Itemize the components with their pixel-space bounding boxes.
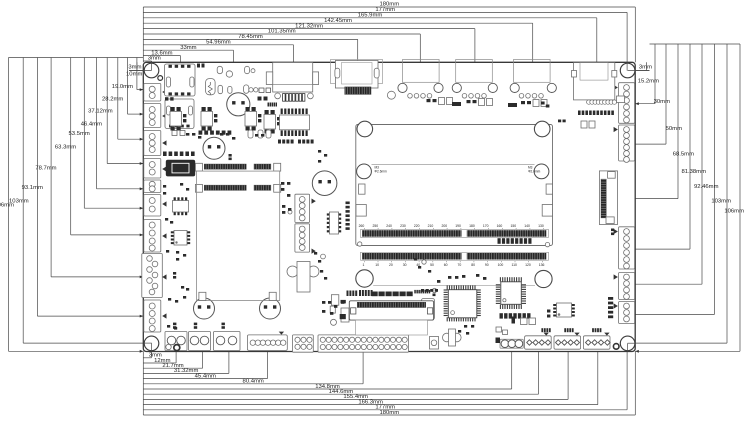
svg-text:1: 1 (363, 263, 365, 267)
svg-text:90: 90 (485, 263, 489, 267)
svg-text:80: 80 (471, 263, 475, 267)
svg-text:92.46mm: 92.46mm (694, 184, 719, 190)
svg-text:177mm: 177mm (375, 7, 395, 13)
svg-text:63.3mm: 63.3mm (55, 144, 76, 150)
svg-text:120: 120 (525, 263, 531, 267)
svg-text:54.96mm: 54.96mm (206, 40, 231, 46)
svg-text:68.5mm: 68.5mm (673, 151, 694, 157)
svg-text:19.0mm: 19.0mm (112, 84, 133, 90)
svg-text:13.6mm: 13.6mm (151, 50, 172, 56)
svg-text:50mm: 50mm (666, 126, 682, 132)
svg-text:106mm: 106mm (724, 209, 744, 215)
svg-text:180: 180 (469, 224, 475, 228)
svg-text:Φ2.6mm: Φ2.6mm (375, 170, 388, 174)
svg-text:50: 50 (430, 263, 434, 267)
svg-text:165.9mm: 165.9mm (358, 13, 383, 19)
svg-text:210: 210 (428, 224, 434, 228)
svg-text:170: 170 (483, 224, 489, 228)
svg-text:160: 160 (497, 224, 503, 228)
svg-text:260: 260 (359, 224, 365, 228)
svg-text:240: 240 (386, 224, 392, 228)
svg-text:30mm: 30mm (654, 99, 670, 105)
svg-text:3mm: 3mm (128, 65, 141, 71)
svg-text:142.45mm: 142.45mm (324, 18, 352, 24)
svg-text:190: 190 (455, 224, 461, 228)
svg-text:53.5mm: 53.5mm (69, 131, 90, 137)
svg-text:37.12mm: 37.12mm (88, 109, 113, 115)
svg-text:101.35mm: 101.35mm (268, 29, 296, 35)
svg-text:230: 230 (400, 224, 406, 228)
svg-text:103mm: 103mm (711, 198, 731, 204)
svg-text:46.4mm: 46.4mm (81, 121, 102, 127)
svg-text:93.1mm: 93.1mm (22, 185, 43, 191)
svg-text:10: 10 (375, 263, 379, 267)
svg-text:60: 60 (444, 263, 448, 267)
svg-text:3mm: 3mm (639, 65, 652, 71)
svg-text:250: 250 (372, 224, 378, 228)
svg-text:100: 100 (498, 263, 504, 267)
svg-text:45.4mm: 45.4mm (195, 373, 216, 379)
svg-text:140: 140 (524, 224, 530, 228)
svg-text:33mm: 33mm (180, 45, 196, 51)
svg-text:150: 150 (510, 224, 516, 228)
svg-text:200: 200 (441, 224, 447, 228)
svg-text:136: 136 (539, 263, 545, 267)
svg-text:30: 30 (403, 263, 407, 267)
svg-text:20: 20 (389, 263, 393, 267)
svg-text:15.2mm: 15.2mm (638, 79, 659, 85)
svg-text:Φ2.6mm: Φ2.6mm (528, 170, 541, 174)
svg-text:180mm: 180mm (379, 410, 399, 416)
svg-text:81.38mm: 81.38mm (681, 169, 706, 175)
svg-text:78.7mm: 78.7mm (35, 165, 56, 171)
svg-text:180mm: 180mm (379, 2, 399, 8)
svg-text:28.2mm: 28.2mm (102, 96, 123, 102)
svg-text:10mm: 10mm (126, 72, 142, 78)
svg-text:70: 70 (458, 263, 462, 267)
svg-text:110: 110 (511, 263, 517, 267)
svg-text:130: 130 (538, 224, 544, 228)
svg-text:3mm: 3mm (148, 56, 161, 62)
svg-text:220: 220 (414, 224, 420, 228)
svg-text:78.45mm: 78.45mm (238, 34, 263, 40)
svg-text:80.4mm: 80.4mm (243, 379, 264, 385)
svg-text:121.32mm: 121.32mm (295, 23, 323, 29)
svg-text:106mm: 106mm (0, 203, 14, 209)
